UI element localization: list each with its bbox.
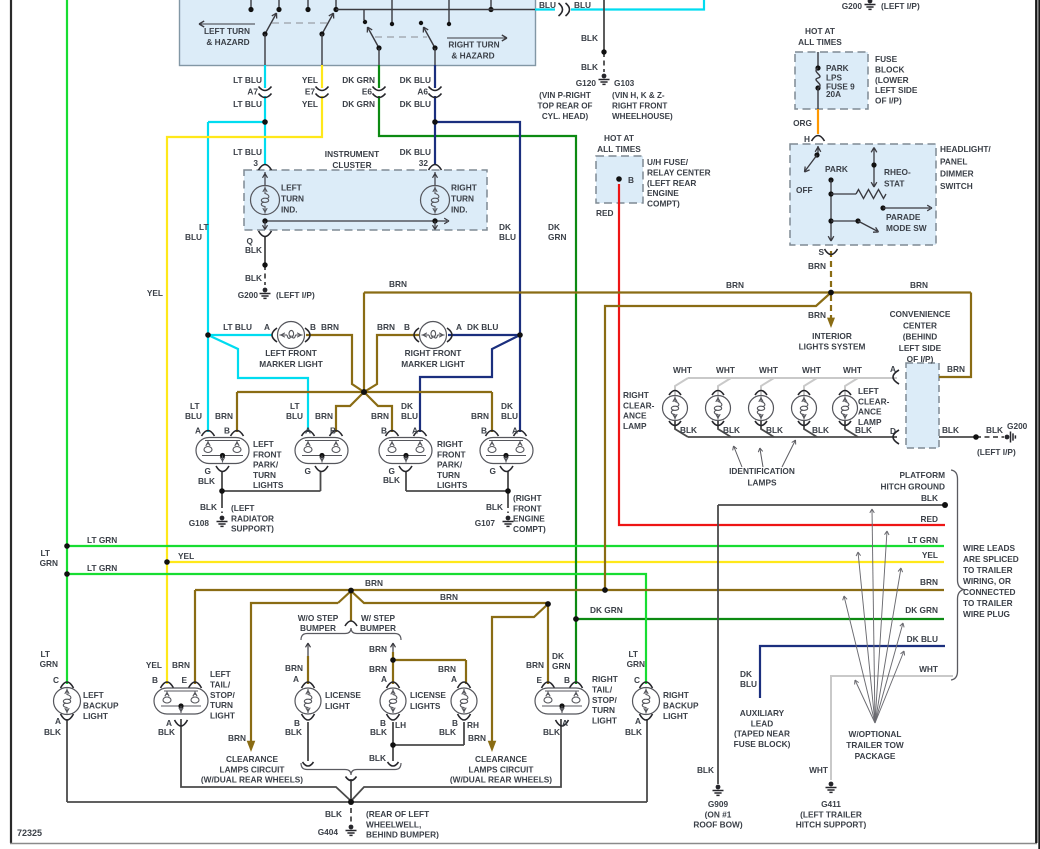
svg-text:BRN: BRN — [172, 660, 190, 670]
svg-text:SWITCH: SWITCH — [940, 181, 973, 191]
svg-text:PARK/: PARK/ — [253, 460, 279, 470]
svg-text:CLEARANCE: CLEARANCE — [475, 754, 528, 764]
svg-text:STAT: STAT — [884, 179, 904, 189]
node ltgrn1 — [64, 543, 70, 549]
wire DK BLU branch to 3rd park lamp A — [420, 335, 520, 432]
ground G200 top right — [868, 0, 873, 3]
arrow to interior lights system — [827, 318, 835, 328]
svg-text:LIGHTS: LIGHTS — [253, 480, 284, 490]
svg-text:BLK: BLK — [369, 753, 386, 763]
svg-text:ANCE: ANCE — [623, 411, 647, 421]
node headlight brn — [828, 290, 834, 296]
svg-text:BLU: BLU — [286, 411, 303, 421]
svg-text:PANEL: PANEL — [940, 156, 968, 166]
svg-text:E7: E7 — [305, 87, 316, 97]
svg-text:G411: G411 — [821, 799, 841, 809]
svg-text:HOT AT: HOT AT — [805, 26, 835, 36]
svg-text:WHEELHOUSE): WHEELHOUSE) — [612, 112, 673, 121]
svg-text:YEL: YEL — [922, 550, 938, 560]
svg-text:LEFT TURN: LEFT TURN — [204, 26, 250, 36]
wire BLK backup lights to G404 — [67, 719, 647, 802]
wire BRN star junction spokes — [237, 392, 364, 432]
svg-text:(BEHIND: (BEHIND — [903, 332, 938, 342]
svg-text:WHT: WHT — [802, 365, 821, 375]
connector E6 — [373, 87, 386, 91]
connector A7 — [259, 87, 272, 91]
lower contact arm — [831, 220, 858, 222]
svg-text:A: A — [264, 322, 270, 332]
svg-text:LT GRN: LT GRN — [908, 535, 938, 545]
svg-text:ENGINE: ENGINE — [647, 188, 679, 198]
svg-text:BEHIND BUMPER): BEHIND BUMPER) — [366, 830, 439, 840]
svg-text:PARK/: PARK/ — [437, 460, 463, 470]
node left G — [219, 488, 225, 494]
svg-text:LT BLU: LT BLU — [233, 147, 262, 157]
svg-text:LIGHTS: LIGHTS — [437, 480, 468, 490]
linkage dashes left — [272, 22, 331, 24]
turn/hazard switch internals — [250, 0, 252, 10]
svg-text:RELAY CENTER: RELAY CENTER — [647, 167, 711, 177]
svg-text:LT BLU: LT BLU — [223, 322, 252, 332]
svg-text:ALL TIMES: ALL TIMES — [597, 144, 641, 154]
svg-text:RHEO-: RHEO- — [884, 167, 911, 177]
svg-text:A: A — [305, 426, 311, 436]
svg-text:TURN: TURN — [210, 700, 233, 710]
svg-text:BRN: BRN — [371, 411, 389, 421]
svg-text:BRN: BRN — [920, 577, 938, 587]
trailer splice arrows — [872, 509, 875, 723]
svg-text:BLK: BLK — [325, 809, 342, 819]
svg-text:BRN: BRN — [285, 663, 303, 673]
wire LT GRN lead 2 to right backup — [67, 574, 646, 684]
connector E7 — [316, 87, 329, 91]
svg-text:WHT: WHT — [716, 365, 735, 375]
svg-text:FRONT: FRONT — [513, 503, 542, 513]
svg-text:LAMPS CIRCUIT: LAMPS CIRCUIT — [220, 764, 285, 774]
svg-text:ARE SPLICED: ARE SPLICED — [963, 554, 1019, 564]
svg-text:COMPT): COMPT) — [647, 199, 680, 209]
wire BLK left park lamps ground — [222, 471, 321, 503]
wire BLK cluster ground — [264, 236, 266, 265]
svg-text:(REAR OF LEFT: (REAR OF LEFT — [366, 809, 429, 819]
svg-text:TAIL/: TAIL/ — [592, 684, 613, 694]
svg-text:BLK: BLK — [766, 425, 783, 435]
svg-text:BLK: BLK — [245, 245, 262, 255]
svg-text:20A: 20A — [826, 90, 841, 99]
svg-text:A: A — [412, 426, 418, 436]
svg-text:W/ STEP: W/ STEP — [361, 613, 396, 623]
node LT BLU split — [205, 332, 211, 338]
node LT BLU A7 — [262, 119, 268, 125]
svg-text:(LEFT I/P): (LEFT I/P) — [881, 1, 920, 11]
clearance lamp 5 — [833, 396, 858, 421]
svg-text:BLK: BLK — [383, 475, 400, 485]
svg-text:ANCE: ANCE — [858, 407, 882, 417]
svg-text:WHT: WHT — [759, 365, 778, 375]
turn/hazard switch box — [180, 0, 536, 66]
svg-text:W/O STEP: W/O STEP — [298, 613, 339, 623]
wire DK GRN from switch E6 — [378, 65, 380, 88]
svg-text:RED: RED — [920, 514, 938, 524]
svg-text:BRN: BRN — [910, 280, 928, 290]
wire LT BLU from switch A7 — [264, 65, 266, 88]
svg-text:GRN: GRN — [40, 558, 58, 568]
svg-text:BLK: BLK — [581, 33, 598, 43]
svg-text:ALL TIMES: ALL TIMES — [798, 37, 842, 47]
svg-text:LEFT SIDE: LEFT SIDE — [875, 85, 918, 95]
svg-text:MARKER LIGHT: MARKER LIGHT — [401, 359, 465, 369]
svg-text:BLK: BLK — [625, 727, 642, 737]
svg-text:BRN: BRN — [228, 733, 246, 743]
svg-text:TOP REAR OF: TOP REAR OF — [537, 101, 592, 110]
svg-text:BRN: BRN — [321, 322, 339, 332]
linkage dashes right — [375, 36, 427, 38]
svg-text:C: C — [634, 675, 640, 685]
svg-text:PARK: PARK — [826, 64, 849, 73]
svg-text:CENTER: CENTER — [903, 320, 937, 330]
svg-text:TURN: TURN — [437, 470, 460, 480]
svg-text:LIGHT: LIGHT — [83, 711, 108, 721]
svg-text:RED: RED — [596, 208, 614, 218]
svg-text:BLK: BLK — [812, 425, 829, 435]
svg-text:BLK: BLK — [158, 727, 175, 737]
svg-text:32: 32 — [419, 158, 429, 168]
wire ORG fuse to switch H — [817, 109, 819, 134]
svg-text:BLU: BLU — [499, 232, 516, 242]
svg-text:FUSE BLOCK): FUSE BLOCK) — [734, 739, 791, 749]
svg-text:A: A — [381, 674, 387, 684]
svg-text:LICENSE: LICENSE — [410, 690, 446, 700]
wire WHT trailer lead to G411 — [831, 676, 953, 780]
page border frame — [10, 0, 12, 843]
svg-text:LEFT SIDE: LEFT SIDE — [899, 343, 942, 353]
switch bus bar — [336, 9, 535, 11]
svg-text:A: A — [55, 716, 61, 726]
svg-text:BLU: BLU — [401, 411, 418, 421]
svg-text:BRN: BRN — [215, 411, 233, 421]
svg-text:BRN: BRN — [471, 411, 489, 421]
svg-text:WHT: WHT — [673, 365, 692, 375]
svg-text:BRN: BRN — [947, 364, 965, 374]
right front marker light — [414, 328, 419, 342]
svg-text:WHT: WHT — [919, 664, 938, 674]
svg-text:BLU: BLU — [501, 411, 518, 421]
svg-text:G103: G103 — [614, 78, 635, 88]
fuse PARK LPS FUSE 9 — [815, 65, 820, 70]
svg-text:WIRING, OR: WIRING, OR — [963, 576, 1011, 586]
switch right-turn arm 3 — [363, 10, 365, 21]
svg-text:TURN: TURN — [451, 194, 474, 204]
node DK BLU split — [517, 332, 523, 338]
svg-text:A: A — [293, 674, 299, 684]
svg-text:G404: G404 — [318, 827, 339, 837]
svg-text:BLK: BLK — [680, 425, 697, 435]
connector pin 32 — [429, 165, 442, 171]
svg-text:(LEFT I/P): (LEFT I/P) — [276, 290, 315, 300]
svg-text:CLUSTER: CLUSTER — [332, 160, 371, 170]
ground G200 cluster — [263, 288, 268, 293]
wire BRN license branch left — [307, 656, 309, 684]
wire DK BLU to cluster pin 32 — [434, 122, 436, 165]
svg-text:WHEELWELL,: WHEELWELL, — [366, 819, 421, 829]
svg-text:RIGHT: RIGHT — [663, 690, 689, 700]
node BRN star — [361, 389, 367, 395]
svg-text:G: G — [490, 466, 496, 476]
node BLK splice — [973, 434, 979, 440]
svg-text:BLOCK: BLOCK — [875, 64, 905, 74]
wire LT BLU to cluster pin 3 — [264, 122, 266, 165]
svg-text:B: B — [224, 426, 230, 436]
svg-text:LEFT: LEFT — [210, 669, 231, 679]
left front park/turn lamp 2 — [302, 431, 315, 437]
svg-text:BLK: BLK — [697, 765, 714, 775]
svg-text:BLK: BLK — [370, 727, 387, 737]
svg-text:WHT: WHT — [843, 365, 862, 375]
svg-text:YEL: YEL — [146, 660, 162, 670]
svg-text:(W/DUAL REAR WHEELS): (W/DUAL REAR WHEELS) — [201, 775, 303, 785]
svg-text:LIGHTS: LIGHTS — [410, 701, 441, 711]
svg-text:ENGINE: ENGINE — [513, 514, 545, 524]
svg-text:G120: G120 — [576, 78, 597, 88]
svg-text:A7: A7 — [247, 87, 258, 97]
clearance lamp 2 — [706, 396, 731, 421]
clearance lamp 3 — [749, 396, 774, 421]
clearance lamp 1 — [663, 396, 688, 421]
svg-text:YEL: YEL — [302, 75, 318, 85]
svg-text:E6: E6 — [362, 87, 373, 97]
W/O step / W step bumper bracket — [345, 621, 357, 626]
wire DK BLU from switch A6 — [434, 65, 436, 88]
svg-text:BLK: BLK — [439, 727, 456, 737]
node brn bus 1 — [348, 588, 354, 594]
svg-text:LT: LT — [190, 401, 200, 411]
switch left-turn arm 1 — [265, 14, 276, 34]
svg-text:WIRE PLUG: WIRE PLUG — [963, 609, 1010, 619]
svg-text:BRN: BRN — [440, 592, 458, 602]
wire DK GRN lead to trailer — [576, 618, 944, 620]
svg-text:G200: G200 — [238, 290, 259, 300]
svg-text:B: B — [330, 426, 336, 436]
parade mode switch — [880, 205, 885, 210]
svg-text:BLK: BLK — [723, 425, 740, 435]
rheostat wiper arrow — [873, 148, 875, 186]
svg-text:STOP/: STOP/ — [210, 690, 235, 700]
svg-text:IDENTIFICATION: IDENTIFICATION — [729, 466, 795, 476]
svg-text:BACKUP: BACKUP — [83, 700, 119, 710]
svg-text:BLK: BLK — [543, 727, 560, 737]
license bottom bracket — [301, 763, 401, 775]
svg-text:MARKER LIGHT: MARKER LIGHT — [259, 359, 323, 369]
svg-text:DK BLU: DK BLU — [907, 634, 938, 644]
svg-text:PLATFORM: PLATFORM — [900, 470, 946, 480]
right front park/turn lamp 4 — [486, 431, 499, 437]
left front marker light — [272, 328, 277, 342]
identification lamps arrows — [734, 447, 742, 467]
rheostat — [831, 193, 856, 195]
svg-text:BRN: BRN — [377, 322, 395, 332]
svg-text:BRN: BRN — [365, 578, 383, 588]
wire BLK convenience to G200 — [939, 436, 976, 438]
connector A6 — [429, 87, 442, 91]
svg-text:RIGHT: RIGHT — [623, 390, 649, 400]
svg-text:RIGHT: RIGHT — [437, 439, 463, 449]
svg-text:LEFT: LEFT — [253, 439, 274, 449]
wire BRN main distribution — [364, 291, 971, 293]
svg-text:B: B — [564, 675, 570, 685]
svg-text:YEL: YEL — [302, 99, 318, 109]
svg-text:G200: G200 — [1007, 421, 1028, 431]
wire YEL from switch E7 — [321, 65, 323, 88]
headlight/panel dimmer switch box — [790, 144, 936, 245]
svg-text:BRN: BRN — [808, 310, 826, 320]
svg-text:TURN: TURN — [592, 705, 615, 715]
wire LT BLU branch to x=208 — [208, 121, 265, 123]
wire BRN clearance circuit left arrow — [251, 603, 338, 742]
svg-text:HITCH SUPPORT): HITCH SUPPORT) — [796, 820, 867, 830]
svg-text:BRN: BRN — [808, 261, 826, 271]
svg-text:GRN: GRN — [40, 659, 58, 669]
svg-text:DK: DK — [740, 669, 752, 679]
svg-text:BLU: BLU — [539, 0, 556, 10]
node hitch ground — [942, 502, 948, 508]
svg-text:DK GRN: DK GRN — [590, 605, 623, 615]
U/H fuse relay center box — [596, 156, 643, 203]
svg-text:FRONT: FRONT — [253, 449, 282, 459]
svg-text:DK BLU: DK BLU — [400, 147, 431, 157]
svg-text:G: G — [205, 466, 211, 476]
svg-text:STOP/: STOP/ — [592, 695, 617, 705]
svg-text:(RIGHT: (RIGHT — [513, 493, 542, 503]
svg-text:BRN: BRN — [526, 660, 544, 670]
switch left-turn arm 2 — [322, 14, 333, 34]
wire DK BLU over to x=520 — [435, 122, 520, 432]
svg-text:LIGHTS SYSTEM: LIGHTS SYSTEM — [799, 342, 866, 352]
svg-text:B: B — [381, 426, 387, 436]
svg-text:CYL. HEAD): CYL. HEAD) — [542, 112, 589, 121]
left turn and hazard arrow — [200, 23, 255, 25]
svg-text:LT GRN: LT GRN — [87, 535, 117, 545]
svg-text:LEFT: LEFT — [83, 690, 104, 700]
svg-text:3: 3 — [253, 158, 258, 168]
svg-text:(TAPED NEAR: (TAPED NEAR — [734, 729, 790, 739]
park feed line — [828, 177, 833, 182]
svg-text:CONNECTED: CONNECTED — [963, 587, 1016, 597]
svg-text:G909: G909 — [708, 799, 729, 809]
node ltgrn2 — [64, 571, 70, 577]
svg-text:BLK: BLK — [581, 62, 598, 72]
node DK BLU A6 — [432, 119, 438, 125]
svg-text:BRN: BRN — [726, 280, 744, 290]
wire DK BLU marker A to junction — [448, 334, 520, 336]
svg-text:RIGHT TURN: RIGHT TURN — [448, 40, 499, 50]
svg-text:WIRE LEADS: WIRE LEADS — [963, 543, 1016, 553]
svg-text:TO TRAILER: TO TRAILER — [963, 565, 1013, 575]
svg-text:A: A — [195, 426, 201, 436]
svg-text:LPS: LPS — [826, 73, 842, 82]
svg-text:YEL: YEL — [178, 551, 194, 561]
svg-text:BRN: BRN — [315, 411, 333, 421]
wire LT BLU to marker light A — [208, 334, 272, 336]
wire BLK license lamp grounds — [307, 722, 309, 761]
svg-text:GRN: GRN — [548, 232, 566, 242]
svg-text:ROOF BOW): ROOF BOW) — [693, 820, 743, 830]
svg-text:RIGHT FRONT: RIGHT FRONT — [405, 348, 462, 358]
node yel — [164, 559, 170, 565]
svg-text:LH: LH — [395, 720, 406, 730]
svg-text:BUMPER: BUMPER — [300, 623, 336, 633]
svg-text:INTERIOR: INTERIOR — [812, 331, 852, 341]
svg-text:LICENSE: LICENSE — [325, 690, 361, 700]
svg-text:DIMMER: DIMMER — [940, 169, 974, 179]
svg-text:DK BLU: DK BLU — [400, 99, 431, 109]
svg-text:BACKUP: BACKUP — [663, 700, 699, 710]
svg-text:PARK: PARK — [825, 164, 848, 174]
wire BLK right tail A — [351, 719, 561, 801]
wire RED from relay center — [619, 184, 945, 525]
svg-text:G200: G200 — [842, 1, 863, 11]
svg-text:MODE SW: MODE SW — [886, 223, 927, 233]
svg-text:LT GRN: LT GRN — [87, 563, 117, 573]
svg-text:CLEAR-: CLEAR- — [858, 396, 890, 406]
svg-text:WHT: WHT — [809, 765, 828, 775]
svg-text:LIGHT: LIGHT — [210, 711, 235, 721]
svg-text:OFF: OFF — [796, 185, 813, 195]
svg-text:LAMP: LAMP — [623, 421, 647, 431]
right turn & hazard arrow — [447, 37, 506, 39]
svg-text:& HAZARD: & HAZARD — [206, 37, 249, 47]
convenience center box — [906, 363, 939, 448]
svg-text:DK: DK — [501, 401, 513, 411]
wire BLK bracket stem to G404 node — [350, 779, 352, 802]
svg-text:A: A — [512, 426, 518, 436]
svg-text:LAMPS: LAMPS — [747, 478, 777, 488]
connector BLU inline — [559, 3, 563, 16]
svg-text:LEFT FRONT: LEFT FRONT — [265, 348, 317, 358]
wire BLK platform hitch ground — [718, 504, 945, 506]
svg-text:LT: LT — [199, 222, 209, 232]
svg-text:DK BLU: DK BLU — [467, 322, 498, 332]
wire DK BLU auxiliary lead — [760, 646, 945, 698]
wire LT GRN main vertical — [66, 0, 68, 684]
svg-text:A: A — [635, 716, 641, 726]
wire WHT clearance lamp chain — [675, 378, 688, 395]
svg-text:H: H — [804, 134, 810, 144]
svg-text:OF I/P): OF I/P) — [907, 354, 934, 364]
connector pin 3 — [259, 165, 272, 171]
svg-text:BLK: BLK — [245, 273, 262, 283]
svg-text:BLU: BLU — [574, 0, 591, 10]
svg-text:(LOWER: (LOWER — [875, 75, 909, 85]
svg-text:BLK: BLK — [921, 493, 938, 503]
wire BLU top right — [535, 8, 555, 10]
wire BRN license branch right — [393, 652, 466, 684]
left front park/turn lamp 1 — [202, 431, 215, 437]
svg-text:LAMP: LAMP — [858, 417, 882, 427]
svg-text:G108: G108 — [189, 518, 210, 528]
off contact arm — [805, 155, 817, 171]
svg-text:LT: LT — [290, 401, 300, 411]
svg-text:BLU: BLU — [740, 679, 757, 689]
svg-text:BRN: BRN — [369, 644, 387, 654]
svg-text:HEADLIGHT/: HEADLIGHT/ — [940, 144, 991, 154]
svg-text:B: B — [404, 322, 410, 332]
svg-text:A: A — [456, 322, 462, 332]
svg-text:(LEFT: (LEFT — [231, 503, 255, 513]
svg-text:LAMPS CIRCUIT: LAMPS CIRCUIT — [469, 764, 534, 774]
svg-text:DK GRN: DK GRN — [342, 99, 375, 109]
branch arrows below bracket — [307, 644, 309, 656]
wire BRN clearance circuit right arrow — [492, 604, 548, 742]
